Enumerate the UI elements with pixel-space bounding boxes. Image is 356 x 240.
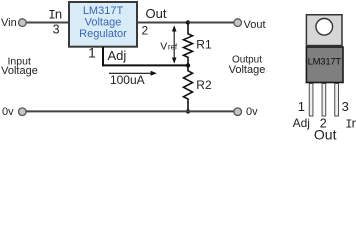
svg-text:100uA: 100uA bbox=[110, 73, 145, 87]
svg-text:1: 1 bbox=[298, 99, 305, 114]
package leg 3 bbox=[335, 84, 339, 117]
label Output Voltage bbox=[229, 54, 266, 76]
terminal 0v right bbox=[234, 108, 242, 116]
arrow 100uA current bbox=[109, 71, 157, 76]
wire Vin to regulator In pin bbox=[27, 22, 70, 24]
svg-text:Vref: Vref bbox=[160, 41, 178, 53]
resistor R2 bbox=[184, 65, 193, 111]
svg-text:Out: Out bbox=[146, 6, 167, 21]
svg-text:R2: R2 bbox=[196, 78, 212, 92]
svg-text:3: 3 bbox=[53, 23, 60, 37]
svg-text:In: In bbox=[345, 116, 356, 131]
svg-text:Vout: Vout bbox=[244, 19, 266, 31]
node A junction bbox=[186, 20, 190, 24]
svg-text:3: 3 bbox=[342, 99, 349, 114]
terminal 0v left bbox=[19, 108, 27, 116]
package mounting hole bbox=[316, 19, 333, 36]
svg-text:Voltage: Voltage bbox=[1, 65, 38, 77]
svg-text:1: 1 bbox=[88, 46, 96, 61]
svg-text:LM317T: LM317T bbox=[83, 5, 124, 17]
package leg 2 bbox=[322, 84, 326, 117]
svg-text:Voltage: Voltage bbox=[85, 17, 122, 29]
regulator U1 LM317T box bbox=[69, 2, 137, 47]
terminal Vout bbox=[234, 19, 242, 27]
arrow Vref bbox=[172, 25, 177, 64]
svg-text:Vin: Vin bbox=[1, 17, 17, 29]
svg-text:R1: R1 bbox=[196, 37, 212, 51]
svg-text:0v: 0v bbox=[2, 106, 14, 118]
svg-text:Voltage: Voltage bbox=[229, 64, 266, 76]
svg-text:2: 2 bbox=[142, 24, 149, 38]
svg-text:Adj: Adj bbox=[108, 48, 127, 63]
svg-text:0v: 0v bbox=[246, 106, 258, 118]
resistor R1 bbox=[184, 23, 193, 66]
node C junction on 0v rail bbox=[186, 109, 190, 113]
label Input Voltage bbox=[1, 55, 38, 77]
wire 0v rail bbox=[26, 110, 234, 112]
wire regulator Adj pin vertical bbox=[102, 47, 104, 67]
package body bbox=[306, 47, 343, 83]
wire Adj pin to node B bbox=[102, 64, 189, 66]
svg-text:LM317T: LM317T bbox=[308, 57, 342, 68]
svg-text:Adj: Adj bbox=[293, 116, 310, 130]
wire regulator Out pin to node A bbox=[138, 22, 188, 24]
node B junction bbox=[186, 63, 190, 67]
package leg 1 bbox=[309, 84, 313, 117]
wire node A to Vout terminal bbox=[188, 22, 234, 24]
svg-text:Regulator: Regulator bbox=[79, 28, 127, 40]
terminal Vin bbox=[19, 19, 27, 27]
package U1 tab bbox=[306, 15, 342, 46]
svg-text:In: In bbox=[48, 6, 62, 22]
svg-text:Out: Out bbox=[314, 127, 337, 141]
